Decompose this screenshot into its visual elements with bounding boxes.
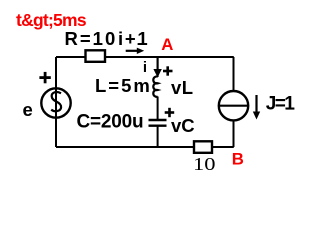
- foot serif of 1 in R=10: [94, 43, 102, 45]
- inductor L coil: [153, 76, 158, 96]
- voltage source e (circle): [41, 88, 70, 117]
- wire bottom (node B rail): [56, 146, 234, 148]
- wire middle branch lower: [157, 127, 159, 148]
- current source bar: [219, 105, 248, 107]
- svg-text:e: e: [23, 99, 33, 120]
- wire left branch: [55, 57, 57, 147]
- svg-text:vL: vL: [171, 77, 194, 98]
- wire right branch: [233, 57, 235, 147]
- svg-text:10: 10: [193, 154, 216, 174]
- plus sign near e: [39, 76, 50, 79]
- wire top (node A rail): [56, 56, 234, 58]
- plus sign vC: [165, 111, 175, 114]
- wire middle branch upper: [157, 57, 159, 77]
- svg-text:A: A: [161, 35, 173, 54]
- svg-text:J=1: J=1: [266, 94, 295, 115]
- current arrow i (down middle branch): [157, 58, 159, 70]
- foot serif of 1 in J=1: [286, 108, 294, 110]
- resistor R=10 (top): [86, 50, 106, 62]
- svg-text:i+1: i+1: [118, 28, 149, 49]
- svg-text:vC: vC: [171, 115, 195, 136]
- svg-text:R=10: R=10: [65, 28, 118, 49]
- wire middle branch between L and C: [157, 97, 159, 120]
- voltage source sine squiggle: [51, 92, 61, 111]
- current source J (circle): [219, 91, 248, 120]
- svg-text:i: i: [143, 59, 147, 76]
- svg-text:t&gt;5ms: t&gt;5ms: [16, 10, 87, 30]
- svg-text:B: B: [232, 150, 244, 169]
- resistor 10 (bottom): [194, 141, 212, 153]
- plus sign vL: [163, 70, 173, 73]
- capacitor C plates: [149, 119, 167, 121]
- svg-text:L=5m: L=5m: [95, 75, 152, 96]
- foot serif of 1 in i+1: [138, 43, 147, 45]
- arrow right under i+1: [126, 50, 138, 52]
- arrow down J: [255, 95, 257, 112]
- svg-text:C=200u: C=200u: [77, 112, 144, 133]
